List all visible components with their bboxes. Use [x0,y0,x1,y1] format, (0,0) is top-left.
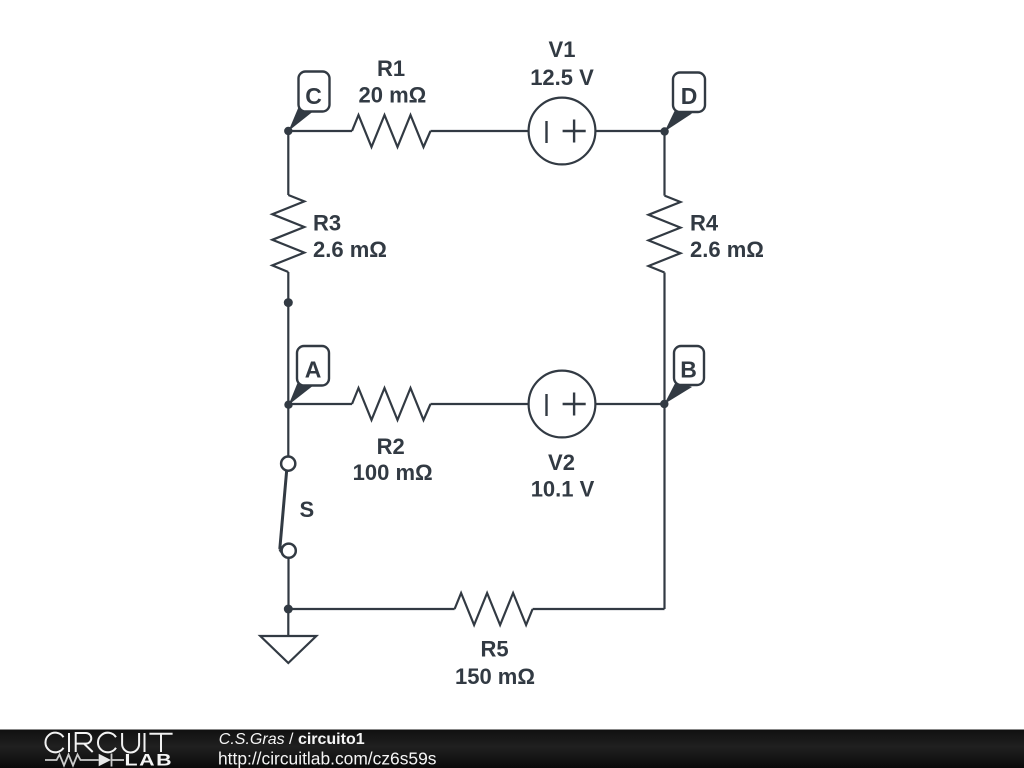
svg-text:C: C [305,83,322,109]
svg-text:LAB: LAB [125,751,174,768]
svg-text:A: A [305,357,322,383]
svg-text:R1: R1 [377,56,405,81]
svg-text:R5: R5 [480,637,508,662]
svg-text:12.5 V: 12.5 V [530,65,594,90]
svg-text:150 mΩ: 150 mΩ [455,664,535,689]
svg-text:V1: V1 [549,37,576,62]
svg-text:B: B [680,357,697,383]
svg-text:R4: R4 [690,211,719,236]
svg-text:C.S.Gras / circuito1: C.S.Gras / circuito1 [219,731,365,748]
svg-text:10.1 V: 10.1 V [531,477,595,502]
svg-text:http://circuitlab.com/cz6s59s: http://circuitlab.com/cz6s59s [218,748,437,768]
svg-text:100 mΩ: 100 mΩ [353,460,433,485]
svg-text:R3: R3 [313,211,341,236]
svg-text:D: D [681,83,698,109]
svg-text:2.6 mΩ: 2.6 mΩ [690,237,764,262]
svg-text:V2: V2 [548,450,575,475]
svg-text:S: S [300,497,315,522]
svg-text:2.6 mΩ: 2.6 mΩ [313,237,387,262]
svg-text:R2: R2 [377,434,405,459]
svg-text:20 mΩ: 20 mΩ [359,82,427,107]
